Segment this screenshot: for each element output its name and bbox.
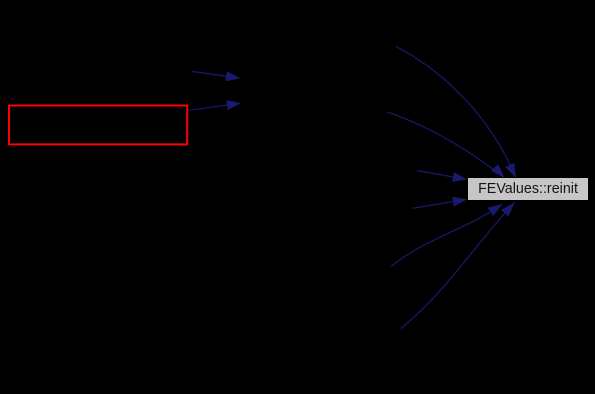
arrowhead C4 <box>501 203 515 217</box>
arrowhead E4 <box>452 197 467 207</box>
wire: curved edge C3 into bottom of FEValues::reinit <box>391 204 503 267</box>
svg-text:FEValues::reinit: FEValues::reinit <box>478 181 578 197</box>
arrowhead C2 <box>491 164 505 178</box>
arrowhead C1 <box>505 163 516 178</box>
arrowhead E3 <box>452 172 467 182</box>
wire: curved edge C1 into top of FEValues::reinit <box>396 46 516 178</box>
wire: curved edge C4 into bottom of FEValues::reinit <box>401 203 515 329</box>
wire: curved edge C2 into top of FEValues::reinit <box>388 112 505 178</box>
node: FEValues::reinit (current function, gray fill) <box>468 178 589 201</box>
arrowhead E2 <box>226 100 241 110</box>
arrowhead E1 <box>225 71 240 81</box>
wire: edge E3 into left of FEValues::reinit <box>417 171 458 178</box>
arrowhead C3 <box>488 204 503 216</box>
wire: edge E2 from red node to hidden middle node <box>189 104 233 110</box>
wire: edge E1 from hidden top-left node to hidden middle node <box>192 72 232 78</box>
node: truncated caller (red box, text hidden on black) <box>9 106 187 145</box>
wire: edge E4 into left of FEValues::reinit <box>412 201 458 209</box>
